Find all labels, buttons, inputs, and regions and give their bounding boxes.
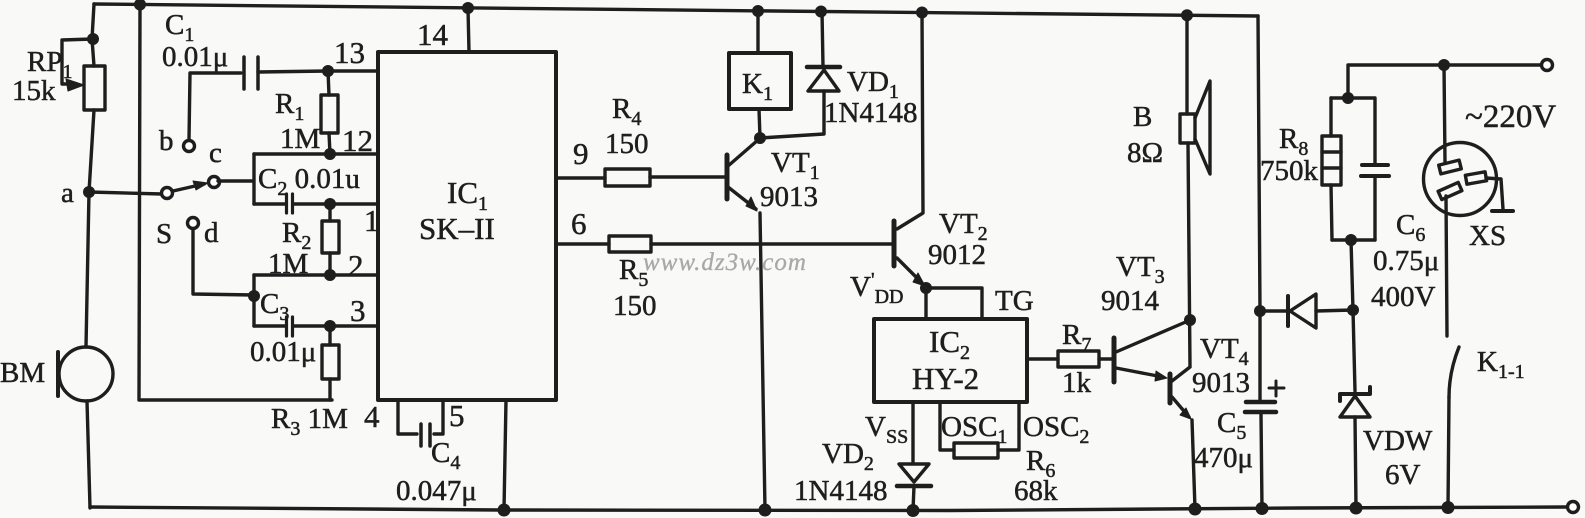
svg-text:9: 9 [573, 136, 589, 171]
node VDW rail [1350, 502, 1363, 515]
svg-text:6: 6 [571, 206, 587, 241]
svg-text:9014: 9014 [1101, 285, 1160, 317]
svg-text:VT1: VT1 [771, 147, 820, 184]
svg-text:XS: XS [1469, 220, 1506, 252]
svg-text:d: d [204, 217, 219, 249]
svg-text:0.01μ: 0.01μ [162, 41, 228, 73]
svg-text:VD2: VD2 [822, 438, 874, 475]
svg-text:b: b [159, 125, 174, 157]
svg-text:0.01μ: 0.01μ [250, 336, 316, 368]
node pin1 [324, 198, 336, 210]
svg-text:c: c [209, 137, 222, 169]
wire a to switch [89, 192, 162, 194]
svg-text:VT4: VT4 [1200, 333, 1249, 370]
svg-text:www.dz3w.com: www.dz3w.com [643, 249, 807, 276]
svg-text:C6: C6 [1396, 209, 1425, 246]
transistor Q3 VT3 [1114, 321, 1188, 382]
svg-text:OSC2: OSC2 [1023, 411, 1089, 448]
wire right rail [1258, 16, 1260, 311]
svg-text:IC1: IC1 [447, 175, 488, 215]
capacitor C3 [254, 317, 378, 336]
svg-text:R7: R7 [1062, 319, 1091, 356]
terminal bottom right [1568, 502, 1579, 513]
wire left rail mid [86, 110, 94, 347]
wire IC2 output [1027, 357, 1058, 360]
svg-text:1N4148: 1N4148 [824, 97, 917, 129]
svg-text:1: 1 [364, 203, 380, 238]
wire VDD and TG pins [926, 288, 982, 319]
svg-text:VDW: VDW [1363, 425, 1433, 457]
svg-text:470μ: 470μ [1194, 442, 1253, 474]
svg-text:R3 1M: R3 1M [271, 403, 348, 440]
svg-text:S: S [156, 218, 172, 250]
svg-text:15k: 15k [12, 75, 56, 107]
svg-text:1M: 1M [268, 248, 308, 280]
node XS top [1438, 59, 1450, 71]
wire R4 to VT1 base [650, 175, 725, 178]
svg-text:9013: 9013 [760, 181, 818, 213]
node pin3 [324, 320, 336, 332]
capacitor C4 [421, 424, 430, 446]
svg-text:BM: BM [0, 357, 45, 389]
wire pin14 [468, 8, 469, 52]
svg-text:1k: 1k [1062, 367, 1092, 399]
svg-text:~220V: ~220V [1465, 99, 1556, 135]
op-amp U1 IC1 box [378, 52, 556, 400]
capacitor C5 [1245, 381, 1284, 509]
svg-text:a: a [61, 177, 74, 209]
speaker B [1180, 15, 1210, 366]
diode VD3 [1260, 294, 1353, 328]
wire contact b to C1 [189, 73, 241, 140]
diode VD1 [760, 11, 840, 138]
wire R5 to VT2 base [651, 242, 892, 245]
svg-text:K1: K1 [742, 68, 773, 105]
wire R8 branch vertical [1351, 240, 1353, 310]
node pin13 [322, 65, 334, 77]
svg-text:14: 14 [417, 17, 449, 52]
svg-text:VT3: VT3 [1116, 251, 1165, 288]
wire pin9 [556, 176, 605, 179]
switch K1-1 [1448, 347, 1459, 508]
wire VSS pin [911, 402, 914, 463]
op-amp U2 IC2 box [874, 319, 1027, 402]
node speaker top [1181, 9, 1193, 21]
svg-text:VSS: VSS [865, 411, 908, 448]
svg-text:150: 150 [613, 290, 657, 322]
svg-text:TG: TG [995, 285, 1034, 317]
svg-text:SK–II: SK–II [419, 211, 495, 246]
node a [83, 186, 95, 198]
svg-text:150: 150 [605, 128, 649, 160]
svg-text:V'DD: V'DD [850, 269, 903, 308]
node VT4 emitter rail [1189, 503, 1202, 516]
resistor R4 [605, 169, 650, 186]
node IC1 ground [498, 504, 511, 517]
transistor Q4 VT4 [1170, 367, 1195, 509]
node RP1 wiper [87, 33, 99, 45]
wire pin2 to C3 vertical [252, 275, 255, 326]
wire OSC1 pin [940, 402, 954, 450]
microphone BM [58, 347, 113, 401]
node d-branch [248, 290, 260, 302]
svg-text:IC2: IC2 [929, 324, 970, 364]
svg-text:750k: 750k [1260, 155, 1319, 187]
relay K1 [729, 11, 791, 138]
wire R7 to VT3 base [1099, 357, 1112, 360]
svg-text:HY-2: HY-2 [912, 361, 979, 396]
resistor R7 [1058, 351, 1099, 367]
svg-text:400V: 400V [1371, 281, 1436, 313]
resistor R6 [954, 443, 998, 458]
node VDD [920, 282, 932, 294]
node VT3 collector [1184, 314, 1196, 326]
node pin2 [324, 269, 336, 281]
node R8 top [1342, 92, 1354, 104]
node VD1 top [815, 6, 827, 18]
wire right rail to C5 [1258, 311, 1261, 400]
node pin12 [324, 148, 336, 160]
node K1 top [752, 5, 764, 17]
wire pin4 [398, 400, 417, 434]
node pin14 [462, 2, 474, 14]
wire left rail lower [87, 401, 90, 508]
svg-text:6V: 6V [1385, 459, 1421, 491]
svg-text:9013: 9013 [1192, 367, 1250, 399]
resistor R5 [609, 236, 651, 252]
svg-text:8Ω: 8Ω [1127, 137, 1163, 169]
svg-text:4: 4 [364, 399, 380, 434]
transistor Q2 VT2 [894, 13, 925, 287]
switch S [162, 141, 220, 229]
svg-text:2: 2 [348, 248, 364, 283]
svg-text:0.047μ: 0.047μ [396, 475, 477, 507]
svg-text:C4: C4 [431, 437, 460, 474]
wire left rail upper [92, 4, 94, 66]
svg-text:C2 0.01u: C2 0.01u [258, 163, 360, 200]
zener VDW [1340, 310, 1370, 508]
svg-text:3: 3 [350, 293, 366, 328]
svg-text:5: 5 [449, 398, 465, 433]
wire top rail [94, 4, 1258, 16]
svg-text:B: B [1133, 101, 1152, 133]
resistor R8 [1322, 98, 1375, 240]
node VT2 collector top [916, 7, 928, 19]
resistor R3 [322, 326, 339, 400]
resistor R1 [321, 71, 338, 154]
wire c-contact branch [218, 154, 254, 204]
node VT1 emitter rail [759, 504, 772, 517]
resistor R2 [322, 204, 339, 275]
svg-text:12: 12 [342, 123, 373, 158]
svg-text:0.75μ: 0.75μ [1373, 245, 1439, 277]
node diode left [1254, 305, 1266, 317]
transistor Q1 VT1 [727, 140, 765, 510]
node K1-1 rail [1442, 501, 1455, 514]
diode VD2 [897, 464, 931, 511]
node diode right [1347, 304, 1359, 316]
wire 220V feed [1331, 65, 1541, 98]
svg-text:1N4148: 1N4148 [794, 475, 887, 507]
capacitor C6 [1348, 98, 1389, 240]
svg-text:9012: 9012 [928, 239, 986, 271]
wire pin12 [254, 152, 378, 155]
wire pin5 [434, 400, 443, 434]
wire pin2 [254, 273, 378, 276]
wire IC1 ground pin [504, 400, 506, 510]
svg-text:1M: 1M [280, 123, 320, 155]
potentiometer RP1 [62, 39, 105, 110]
svg-text:68k: 68k [1014, 475, 1058, 507]
socket XS [1424, 65, 1514, 336]
wire pin6 [556, 242, 609, 245]
svg-text:R4: R4 [612, 93, 641, 130]
node top inner branch [134, 0, 146, 11]
wire contact d branch [193, 229, 254, 295]
node VT1 collector [754, 132, 766, 144]
svg-text:13: 13 [334, 35, 365, 70]
node R8 bottom [1345, 234, 1357, 246]
wire bottom rail [90, 507, 1567, 511]
terminal 220V [1542, 60, 1553, 71]
node C5 rail [1256, 502, 1269, 515]
wire OSC2 pin [998, 402, 1019, 450]
capacitor C1 [244, 57, 258, 89]
node VD2 rail [907, 504, 920, 517]
svg-text:R1: R1 [275, 88, 304, 125]
wire inner-left branch [139, 5, 332, 400]
svg-text:K1-1: K1-1 [1477, 346, 1525, 383]
svg-text:C3: C3 [260, 288, 289, 325]
svg-text:C5: C5 [1217, 407, 1246, 444]
capacitor C2 [254, 194, 378, 213]
wire C1 to pin13 [258, 71, 378, 72]
svg-text:OSC1: OSC1 [941, 411, 1007, 448]
